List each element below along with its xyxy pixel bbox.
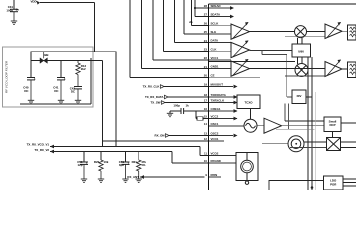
wire	[60, 61, 62, 78]
svg-text:21: 21	[204, 65, 208, 69]
svg-text:RFGND: RFGND	[211, 159, 221, 163]
wire pin stub	[209, 86, 233, 88]
wire pin stub	[209, 24, 231, 26]
svg-text:100n: 100n	[6, 8, 13, 12]
block U7 POR	[324, 176, 344, 190]
svg-text:DCP: DCP	[329, 123, 335, 127]
wire pin stub	[209, 68, 231, 70]
block U3 AFC	[237, 95, 260, 109]
wire	[342, 30, 348, 32]
signal arrow	[234, 95, 238, 99]
wire	[341, 122, 356, 124]
resistor R3	[137, 160, 141, 179]
wire	[138, 152, 140, 161]
svg-text:19: 19	[204, 83, 208, 87]
wire pin stub	[209, 7, 230, 9]
svg-text:10k: 10k	[104, 160, 109, 164]
ground GND6	[98, 179, 104, 182]
svg-text:TX_RX_DATA: TX_RX_DATA	[145, 95, 164, 99]
wire step	[195, 111, 197, 119]
amplifier A2	[231, 40, 250, 57]
wire	[285, 75, 325, 77]
svg-text:RX_ANT: RX_ANT	[127, 175, 139, 179]
svg-text:1k: 1k	[186, 104, 190, 108]
svg-text:12: 12	[204, 137, 208, 141]
wire bus8	[194, 0, 196, 17]
svg-text:2k2: 2k2	[81, 67, 86, 71]
signal arrow	[230, 6, 234, 10]
capacitor C3	[57, 78, 65, 101]
wire bus3	[152, 0, 154, 60]
svg-text:1n: 1n	[16, 8, 20, 12]
svg-text:11: 11	[204, 152, 207, 156]
wire	[30, 61, 32, 78]
svg-text:VDD: VDD	[31, 0, 37, 4]
block U4 divider	[292, 90, 306, 104]
wire VCO bus upper	[50, 145, 54, 149]
ground GND1	[11, 21, 17, 24]
wire vertical rail 2	[311, 57, 313, 190]
resistor R1	[76, 61, 80, 87]
wire	[262, 143, 288, 145]
RF switch S1	[327, 138, 341, 151]
amplifier A6	[264, 118, 282, 133]
filter FL1	[348, 25, 356, 40]
wire pin stub	[209, 76, 260, 78]
svg-text:BB: BB	[44, 53, 48, 57]
wire pin stub	[209, 96, 237, 98]
wire vertical rail 1	[307, 57, 309, 190]
wire loop filter L2 node	[31, 60, 103, 62]
diode pair D1	[40, 52, 47, 63]
oscillator G1	[244, 119, 257, 132]
capacitor C5	[80, 162, 88, 179]
mixer M2	[295, 64, 308, 77]
wire bus6	[183, 0, 185, 34]
wire loop filter L1 top	[31, 51, 116, 53]
wire	[282, 125, 325, 127]
wire vertical rail gray	[314, 92, 316, 190]
ground GND4	[75, 100, 81, 103]
wire bus7	[191, 0, 193, 25]
ground GND2	[28, 100, 34, 103]
svg-text:25: 25	[204, 30, 208, 34]
block U6 bottom	[269, 181, 324, 191]
svg-text:TXRXDATA: TXRXDATA	[211, 93, 227, 97]
svg-text:TX_RX_VCO_V1: TX_RX_VCO_V1	[27, 143, 50, 147]
amplifier A1	[231, 22, 250, 39]
svg-text:SCLK: SCLK	[211, 21, 220, 25]
svg-text:TX_RX_CLK: TX_RX_CLK	[143, 85, 161, 89]
wire bus1	[129, 0, 131, 77]
svg-text:DIV: DIV	[297, 94, 302, 98]
wire bus2	[141, 0, 143, 69]
wire	[261, 51, 263, 55]
ground GND3	[58, 100, 64, 103]
svg-text:18: 18	[204, 93, 208, 97]
svg-text:VCO1: VCO1	[211, 137, 219, 141]
svg-text:TX_SW: TX_SW	[151, 101, 161, 105]
signal arrow	[234, 109, 238, 113]
wire	[288, 104, 290, 130]
wire pin stub	[209, 16, 230, 18]
wire	[332, 132, 334, 138]
wire	[257, 125, 264, 127]
svg-text:TXRXCLK: TXRXCLK	[211, 99, 226, 103]
phase splitter U2	[292, 44, 311, 57]
wire	[250, 68, 326, 70]
wire pin stub	[209, 125, 244, 127]
svg-text:VCO2: VCO2	[211, 152, 219, 156]
svg-text:VCC1: VCC1	[211, 56, 219, 60]
capacitor C2	[27, 78, 35, 101]
crystal oscillator Y1	[236, 153, 258, 185]
amplifier A5	[325, 60, 342, 77]
svg-text:SLE: SLE	[211, 30, 217, 34]
resistor R4	[197, 117, 203, 120]
svg-text:RF VCO LOOP FILTER: RF VCO LOOP FILTER	[5, 60, 9, 93]
wire net VDD to fan corner	[40, 2, 95, 4]
resistor R2	[99, 160, 103, 179]
svg-text:dn: dn	[189, 20, 193, 24]
wire bus5	[174, 0, 176, 43]
wire pin stub	[209, 33, 231, 35]
wire pin stub	[209, 50, 231, 52]
svg-text:22: 22	[204, 56, 208, 60]
amplifier A3	[231, 59, 250, 76]
wire	[306, 96, 312, 98]
filter FL2	[348, 62, 356, 78]
svg-text:RX_ON: RX_ON	[155, 134, 165, 138]
group box RF VCO LOOP FILTER	[3, 47, 94, 107]
signal arrow	[234, 85, 238, 89]
svg-text:12p: 12p	[78, 163, 83, 167]
svg-text:R21: R21	[132, 160, 138, 164]
svg-text:1%: 1%	[141, 163, 146, 167]
wire pin stub	[209, 102, 237, 104]
svg-text:28: 28	[204, 4, 208, 8]
svg-text:POR: POR	[330, 183, 337, 187]
wire pin stub	[209, 162, 236, 164]
svg-text:OSC1: OSC1	[211, 122, 219, 126]
svg-text:CE: CE	[211, 73, 215, 77]
svg-text:20: 20	[204, 74, 208, 78]
wire	[196, 118, 197, 120]
block U5 LDO	[324, 117, 341, 132]
IC U1 transceiver outline	[208, 4, 210, 190]
svg-text:15: 15	[204, 115, 208, 119]
svg-text:DATA: DATA	[211, 39, 220, 43]
wire	[250, 50, 293, 52]
svg-text:TX_RX_V2: TX_RX_V2	[35, 148, 50, 152]
capacitor C4	[74, 87, 82, 101]
wire VCO mid	[103, 140, 209, 142]
wire node to VCO	[102, 61, 104, 147]
wire	[343, 178, 356, 180]
wire	[304, 141, 327, 143]
svg-text:TCXO: TCXO	[244, 101, 253, 105]
svg-text:OSC2: OSC2	[211, 132, 219, 136]
wire	[140, 176, 205, 178]
wire	[341, 141, 356, 143]
wire pin stub	[209, 135, 233, 137]
svg-text:24: 24	[204, 39, 208, 43]
svg-text:17: 17	[204, 99, 208, 103]
wire	[168, 96, 209, 98]
svg-text:CLK: CLK	[211, 47, 218, 51]
capacitor C6	[122, 162, 130, 179]
signal arrow	[230, 15, 234, 19]
wire	[297, 38, 299, 44]
wire pin stub	[209, 42, 231, 44]
svg-text:10: 10	[204, 159, 208, 163]
svg-text:13: 13	[204, 132, 208, 136]
wire	[169, 111, 171, 113]
wire	[13, 0, 15, 9]
amplifier A4	[325, 22, 342, 39]
svg-text:MUXOUT: MUXOUT	[211, 83, 224, 87]
wire pin stub	[209, 140, 224, 142]
svg-text:0/90: 0/90	[298, 50, 304, 54]
svg-text:R20: R20	[94, 160, 100, 164]
wire	[165, 102, 209, 104]
wire pin stub	[209, 155, 236, 157]
wire pin stub	[209, 59, 231, 61]
svg-text:SREAD: SREAD	[211, 4, 221, 8]
svg-text:27: 27	[204, 13, 208, 17]
mixer M1	[295, 26, 307, 38]
wire LO feed	[209, 61, 295, 63]
svg-text:8p2: 8p2	[119, 163, 124, 167]
VCO G2	[288, 136, 304, 152]
wire	[285, 35, 325, 37]
wire	[307, 31, 326, 33]
wire pin stub	[209, 110, 237, 112]
junction	[194, 7, 196, 9]
svg-text:14: 14	[204, 122, 208, 126]
signal arrow	[234, 101, 238, 105]
svg-text:16: 16	[204, 107, 208, 111]
svg-text:26: 26	[204, 22, 208, 26]
wire bus4	[163, 0, 165, 51]
wire loop filter to VCO bus	[115, 52, 117, 147]
junction	[311, 186, 314, 189]
signal arrow	[234, 117, 238, 121]
svg-text:CREG1: CREG1	[211, 107, 221, 111]
wire	[342, 68, 348, 70]
ground GND7	[122, 179, 128, 182]
wire	[297, 57, 299, 64]
wire VCO bus lower	[50, 150, 54, 154]
wire	[250, 31, 295, 33]
wire	[83, 152, 85, 163]
svg-text:VCC2: VCC2	[211, 115, 219, 119]
ground GND8	[136, 179, 142, 182]
svg-text:SDATA: SDATA	[211, 13, 221, 17]
svg-text:23: 23	[204, 48, 208, 52]
wire	[164, 86, 209, 88]
wire	[100, 152, 102, 161]
wire	[250, 109, 252, 120]
signal arrow	[234, 134, 238, 138]
ground GND9	[167, 113, 173, 116]
capacitor C1	[10, 9, 18, 21]
wire pin stub	[209, 118, 237, 120]
capacitor C7 series	[181, 108, 184, 114]
wire	[184, 110, 209, 112]
wire pin stub	[209, 176, 221, 178]
wire	[169, 135, 209, 137]
svg-text:GND1: GND1	[211, 65, 219, 69]
svg-text:100p: 100p	[173, 104, 180, 108]
svg-text:RFIN: RFIN	[211, 173, 218, 177]
ground GND5	[81, 179, 87, 182]
wire	[125, 152, 127, 163]
loop filter enclosure edge	[90, 58, 92, 104]
